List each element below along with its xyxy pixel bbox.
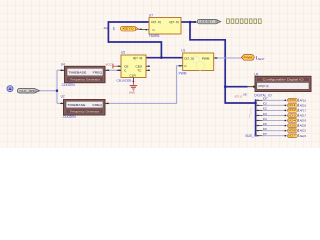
svg-text:CLKGEN: CLKGEN <box>62 83 76 87</box>
svg-text:IO1: IO1 <box>288 104 297 107</box>
svg-text:IO4: IO4 <box>263 118 268 121</box>
configurable digital IO U9 <box>254 73 311 98</box>
clock source icon <box>7 86 13 92</box>
svg-text:U4: U4 <box>61 62 65 66</box>
svg-text:Configurable Digital IO: Configurable Digital IO <box>263 78 305 82</box>
svg-text:AE17: AE17 <box>300 114 307 118</box>
svg-text:IO3: IO3 <box>263 113 268 116</box>
pin location label AG4 <box>104 26 114 30</box>
svg-text:IO7: IO7 <box>288 134 297 137</box>
frequency generator U4 CLKGEN <box>61 62 105 87</box>
junction at counter Q / register D / PWM D <box>160 57 162 59</box>
wire bus fanout vertical BUS_IO <box>255 99 257 135</box>
svg-text:IO2: IO2 <box>263 108 268 111</box>
svg-text:PWM: PWM <box>179 71 187 75</box>
svg-text:U2: U2 <box>61 95 65 99</box>
pin location label AE17 <box>256 56 265 61</box>
svg-text:AE21: AE21 <box>300 129 307 133</box>
svg-text:D[7..0]: D[7..0] <box>151 20 160 24</box>
svg-text:U5: U5 <box>121 51 125 55</box>
svg-text:Q[7..0]: Q[7..0] <box>133 56 142 60</box>
fanout tap pin names and dots <box>257 100 263 135</box>
IO pad tags column <box>287 98 297 137</box>
pin TC stub <box>146 69 150 71</box>
ghost squiggle <box>250 108 253 119</box>
wire bus stub into Configurable Digital IO <box>225 86 247 88</box>
svg-text:Q[7..0]: Q[7..0] <box>169 20 178 24</box>
pin FREQ stub U2 <box>105 102 109 104</box>
wire bus branch down to digital IO and fanout <box>190 22 256 103</box>
pin FREQ stub U4 <box>105 69 109 71</box>
svg-text:AF17: AF17 <box>300 109 307 113</box>
svg-text:IO3: IO3 <box>288 114 297 117</box>
svg-text:TIMEBASE: TIMEBASE <box>67 103 85 107</box>
svg-text:AE16: AE16 <box>300 103 307 107</box>
svg-text:AE19: AE19 <box>300 119 307 123</box>
pin PWM output stub <box>214 57 218 59</box>
svg-text:U9: U9 <box>254 73 258 77</box>
register U7 FD8RB <box>149 14 181 38</box>
wire bus net D[7..0] from counter Q to register D and PWM D <box>108 22 182 58</box>
junction at digital IO branch <box>224 86 226 88</box>
pin CLR stub <box>132 78 134 82</box>
svg-text:AE20: AE20 <box>300 124 307 128</box>
svg-text:CLKGEN: CLKGEN <box>63 115 77 119</box>
wire FREQ2 net U2 output to PWM C <box>105 66 183 104</box>
pin CE stub <box>117 65 121 67</box>
svg-text:LEDS[7..0]: LEDS[7..0] <box>199 20 218 24</box>
pin stub digital IO <box>248 86 255 88</box>
svg-text:CLK_IN50: CLK_IN50 <box>19 89 37 93</box>
output capsule LEDS[7..0] <box>197 20 220 24</box>
svg-text:IO6: IO6 <box>263 128 268 131</box>
svg-text:IO6: IO6 <box>288 129 297 132</box>
input pad tag KEY0 <box>120 26 138 31</box>
frequency generator U2 CLKGEN <box>61 95 105 119</box>
svg-text:IO7: IO7 <box>263 133 268 136</box>
pin CEO stub <box>146 65 150 67</box>
wire clock input net from CLK capsule <box>40 90 57 92</box>
wire clock net vertical to both frequency generators <box>57 70 65 103</box>
wire bus net Q[7..0] register output to LEDS capsule <box>181 21 197 23</box>
svg-text:PWM: PWM <box>244 56 253 60</box>
svg-text:FD8RB: FD8RB <box>149 34 159 38</box>
pin TIMEBASE stub U4 <box>60 69 64 71</box>
junction at fanout corner <box>255 102 257 104</box>
svg-text:Frequency Generator: Frequency Generator <box>70 77 100 81</box>
svg-text:KEY0: KEY0 <box>123 27 135 31</box>
power VCC symbol <box>113 64 117 69</box>
svg-text:CB16CEB: CB16CEB <box>117 78 132 82</box>
svg-text:TIMEBASE: TIMEBASE <box>68 70 86 74</box>
svg-text:U7: U7 <box>149 14 153 18</box>
svg-text:AG4: AG4 <box>104 26 110 30</box>
svg-text:IO0: IO0 <box>263 98 268 101</box>
svg-text:CLR: CLR <box>129 74 136 78</box>
PWM component U1 <box>179 49 214 76</box>
svg-text:IO2: IO2 <box>288 109 297 112</box>
pin C of PWM stub <box>178 65 182 67</box>
input capsule CLK_IN50 <box>17 88 39 93</box>
svg-text:IO5: IO5 <box>288 124 297 127</box>
pin C of register with input pad line <box>138 29 149 31</box>
pin location labels for IO pads <box>300 98 307 137</box>
svg-text:ION[7..0]: ION[7..0] <box>259 84 269 88</box>
svg-text:IO1: IO1 <box>263 103 268 106</box>
svg-text:IO5: IO5 <box>263 123 268 126</box>
junction at clock net split <box>56 90 58 92</box>
svg-text:D[7..0]: D[7..0] <box>184 56 193 60</box>
svg-text:AF16: AF16 <box>300 98 307 102</box>
svg-text:AE22: AE22 <box>300 134 307 138</box>
svg-text:BUS_IO: BUS_IO <box>246 134 258 138</box>
svg-text:AE17: AE17 <box>258 57 265 61</box>
pin TIMEBASE stub U2 <box>60 102 63 104</box>
svg-text:FREQ: FREQ <box>93 70 103 74</box>
svg-text:IO0: IO0 <box>288 99 297 102</box>
svg-text:PWM: PWM <box>202 56 210 60</box>
svg-text:GND: GND <box>129 90 135 94</box>
junction at register Q branch <box>189 21 191 23</box>
svg-text:IO4: IO4 <box>288 119 297 122</box>
pin dot at capsule <box>194 21 196 23</box>
svg-text:U8: U8 <box>243 92 247 96</box>
pin C stub <box>117 69 121 71</box>
ground GND symbol <box>129 82 137 94</box>
svg-text:U1: U1 <box>181 49 185 53</box>
wire FREQ1 net U4 output to counter C <box>105 69 121 71</box>
svg-text:FREQ: FREQ <box>93 103 103 107</box>
output pad tag PWM <box>241 55 254 61</box>
svg-text:IO7..0: IO7..0 <box>235 95 243 99</box>
counter U5 C16CEB <box>117 51 147 83</box>
wire PWM output net to pad <box>214 57 242 59</box>
svg-text:VCC: VCC <box>106 63 113 67</box>
wire fanout taps IO0-IO7 <box>262 100 287 135</box>
LED pad squares row <box>227 19 262 24</box>
svg-text:Frequency Generator: Frequency Generator <box>70 110 100 114</box>
